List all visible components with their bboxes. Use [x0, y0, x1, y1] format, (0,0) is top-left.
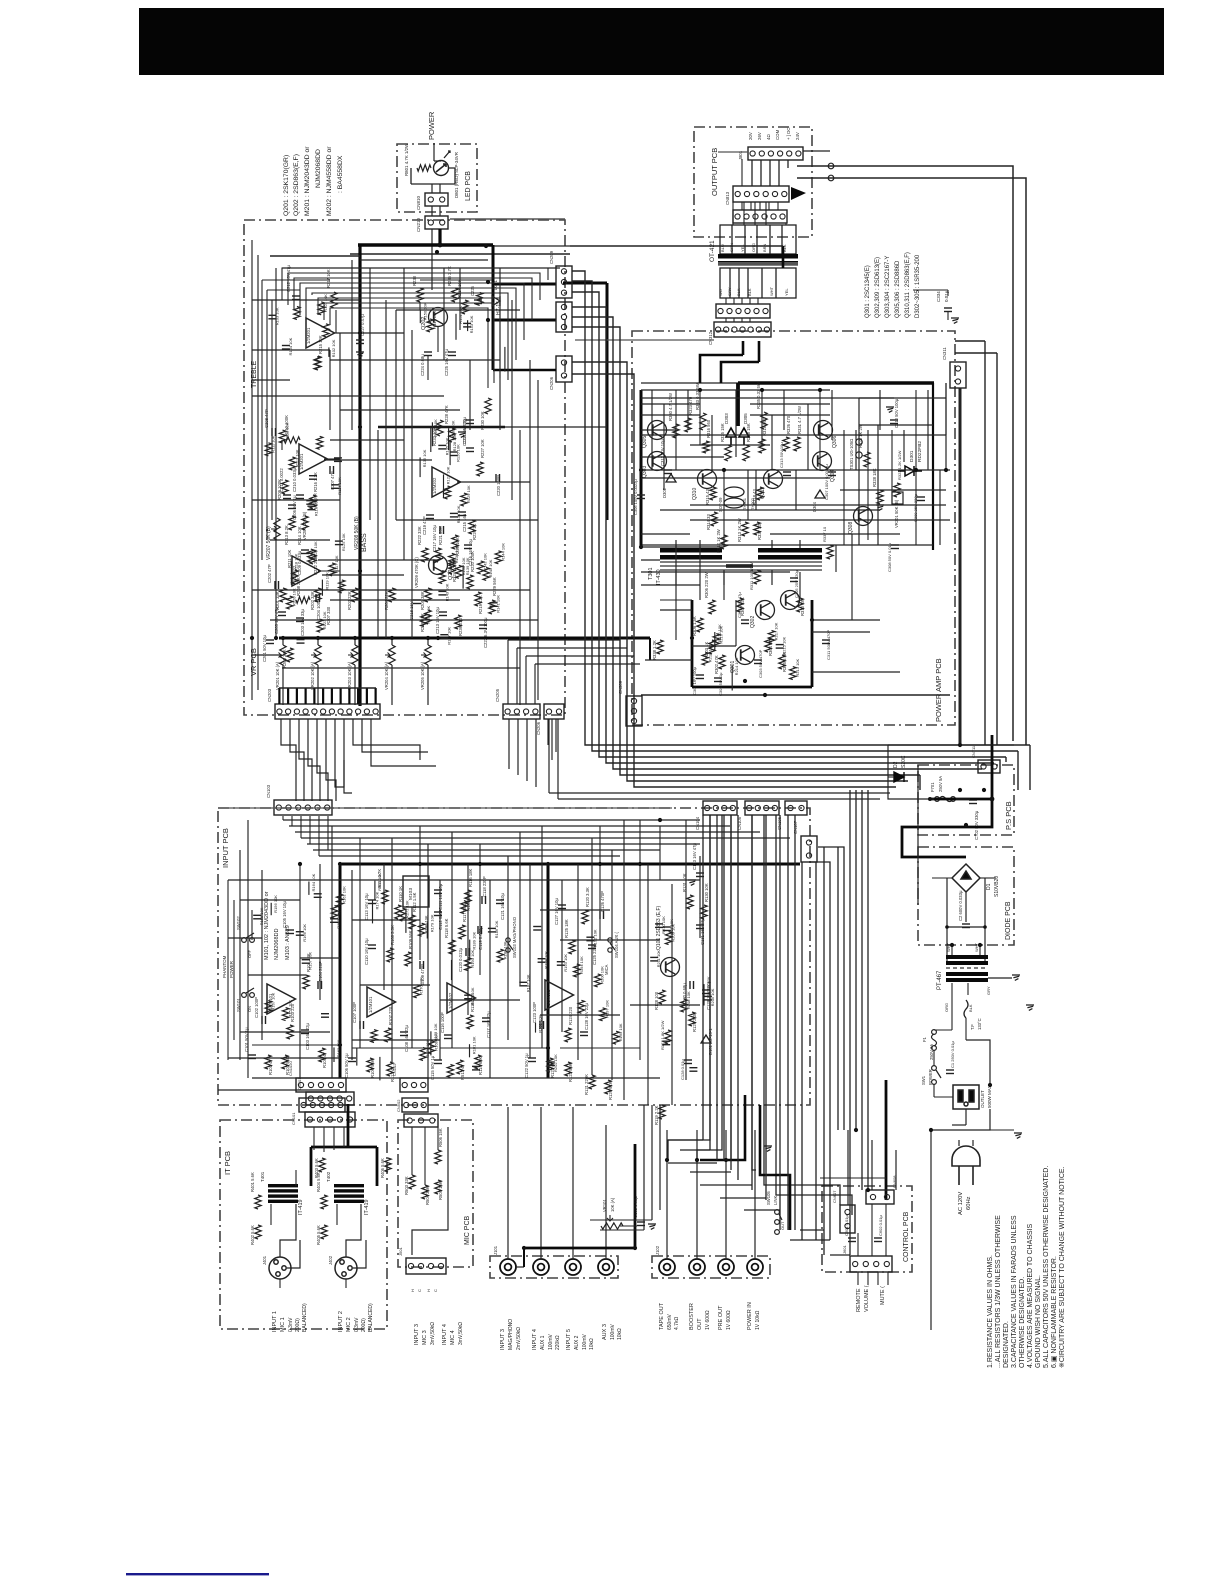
- svg-text:R202 33K: R202 33K: [310, 591, 315, 610]
- svg-text:C307 100V 0.0022μ: C307 100V 0.0022μ: [824, 464, 829, 500]
- svg-text:R315 43: R315 43: [705, 488, 710, 505]
- wire inmesh h9: [240, 1031, 330, 1033]
- svg-text:R156 10K: R156 10K: [273, 895, 278, 913]
- svg-text:1/2M201: 1/2M201: [306, 327, 311, 344]
- wire pamesh h0: [641, 397, 946, 399]
- mic v2: [424, 1127, 426, 1185]
- CONTROL PCB outline: [822, 1186, 912, 1272]
- transistor Q310: [698, 470, 717, 489]
- dp w1: [932, 877, 952, 879]
- svg-text:R135 10K: R135 10K: [444, 437, 449, 455]
- wire rbundle v9: [787, 815, 789, 1230]
- scatter resistor 116: [713, 634, 719, 647]
- svg-text:CN309: CN309: [618, 680, 623, 694]
- svg-text:C602 0.01μ: C602 0.01μ: [878, 1215, 883, 1236]
- svg-text:R325 15K: R325 15K: [720, 423, 725, 442]
- wire vrmesh v7: [377, 430, 379, 638]
- ps thick h: [930, 798, 992, 801]
- svg-text:BLK: BLK: [736, 288, 741, 296]
- svg-text:C217 16V 10μ: C217 16V 10μ: [432, 525, 437, 552]
- wire inmesh v0: [239, 850, 241, 1060]
- svg-text:5.ALL CAPACITORS 50V UNLESS OT: 5.ALL CAPACITORS 50V UNLESS OTHERWISE DE…: [1043, 1166, 1050, 1368]
- pa v1: [675, 390, 677, 470]
- scatter capacitor 58: [330, 919, 338, 923]
- VR205 wiper: [421, 653, 426, 658]
- svg-text:MAG/PHONO: MAG/PHONO: [508, 1319, 514, 1350]
- POWER AMP PCB outline: [632, 331, 955, 725]
- wirej3: [769, 160, 771, 186]
- junction 5: [436, 636, 440, 640]
- wire rbundle v1: [709, 815, 711, 1150]
- node VR205: [426, 636, 430, 640]
- svg-text:BLK: BLK: [747, 288, 752, 296]
- junction 24: [698, 388, 702, 392]
- svg-text:OUTLET: OUTLET: [980, 1090, 985, 1108]
- svg-text:GRY: GRY: [986, 986, 991, 995]
- svg-text:CN103: CN103: [266, 784, 271, 798]
- wire rbundle h7: [790, 1239, 830, 1241]
- scatter resistor 117: [768, 630, 774, 643]
- J101 jack 1: [500, 1259, 516, 1275]
- op-amp M202b: [432, 467, 461, 497]
- svg-text:T401: T401: [260, 1171, 265, 1182]
- svg-text:M201 : NJM2043DD or: M201 : NJM2043DD or: [304, 146, 311, 216]
- wire led top: [434, 160, 441, 162]
- thick h607 top: [563, 282, 607, 285]
- svg-text:VR207 50K (B): VR207 50K (B): [266, 526, 272, 560]
- connector CN607: [840, 1205, 855, 1233]
- svg-text:R125 18K: R125 18K: [564, 919, 569, 938]
- svg-text:R323 470: R323 470: [688, 396, 693, 415]
- svg-text:R129 2.3K: R129 2.3K: [692, 1012, 697, 1032]
- wire inmesh v17: [529, 864, 531, 1058]
- svg-text:250V 2A: 250V 2A: [929, 1044, 934, 1060]
- resistor R307: [737, 598, 743, 612]
- svg-text:R169 10K: R169 10K: [377, 873, 382, 891]
- svg-text:R200 10K: R200 10K: [600, 966, 605, 984]
- svg-text:VR PCB: VR PCB: [249, 648, 258, 676]
- connector J601: [850, 1256, 892, 1272]
- svg-text:C1 250V 0.01μ: C1 250V 0.01μ: [950, 1041, 955, 1068]
- wire vrmesh v17: [519, 430, 521, 705]
- rb v1: [668, 815, 710, 1160]
- resistor R112: [409, 915, 415, 929]
- wire inmesh h1: [240, 899, 300, 901]
- resistor R220: [467, 575, 473, 589]
- fuse F1: [932, 1030, 937, 1051]
- bus y799: [558, 798, 880, 800]
- wire cn210 thin: [431, 229, 433, 290]
- wire rbundle v13: [837, 847, 839, 1130]
- junction 8: [353, 636, 357, 640]
- svg-text:R104 10K: R104 10K: [288, 337, 293, 355]
- wire vrmesh v19: [537, 380, 539, 700]
- wire pamesh v18: [675, 545, 677, 640]
- j101 link1: [516, 1266, 524, 1268]
- capacitor C123: [540, 1021, 544, 1029]
- svg-text:R214 10K: R214 10K: [734, 657, 739, 675]
- svg-text:INPUT PCB: INPUT PCB: [221, 828, 230, 868]
- in band 4: [301, 837, 790, 839]
- capacitor C111: [434, 890, 442, 894]
- VR PCB outline: [244, 220, 565, 715]
- svg-text:C: C: [433, 1289, 438, 1292]
- bund right drop2: [1017, 751, 1019, 790]
- svg-text:R170 10K: R170 10K: [419, 977, 424, 995]
- resistor R101: [265, 1055, 271, 1069]
- wire inmesh v10: [411, 907, 413, 1048]
- bund right drop4: [919, 775, 921, 790]
- svg-text:C219 47P: C219 47P: [422, 516, 427, 535]
- svg-text:TS301 UG-105Ω: TS301 UG-105Ω: [849, 439, 854, 470]
- svg-text:R328 18K: R328 18K: [872, 468, 877, 487]
- svg-text:R192 10K: R192 10K: [592, 929, 597, 947]
- svg-text:R205 38K: R205 38K: [420, 591, 425, 610]
- wire b1 extra 0: [318, 298, 500, 378]
- svg-text:R161 10K: R161 10K: [342, 886, 347, 904]
- rb v10: [855, 790, 857, 1130]
- svg-text:GPOUND WISH NO SIGNAL.: GPOUND WISH NO SIGNAL.: [1035, 1275, 1042, 1368]
- node VR201: [281, 636, 285, 640]
- junction 35: [274, 636, 278, 640]
- capacitor C126: [600, 911, 604, 919]
- wire vrmesh v10: [403, 268, 405, 560]
- svg-text:VR204 10K (A): VR204 10K (A): [384, 661, 389, 690]
- ac w1: [933, 1050, 935, 1066]
- wire inmesh v15: [489, 880, 491, 1078]
- svg-text:220kΩ: 220kΩ: [555, 1335, 561, 1350]
- wire vrmesh h19: [252, 589, 530, 591]
- cn206h d1: [548, 719, 550, 793]
- MIC PCB outline: [398, 1120, 473, 1267]
- svg-text:BALANCED): BALANCED): [302, 1303, 308, 1332]
- dp v1: [965, 892, 967, 922]
- junction 3: [486, 280, 490, 284]
- wire vrmesh v6: [369, 268, 371, 520]
- svg-text:R801 4.7K 1/2W: R801 4.7K 1/2W: [404, 143, 409, 176]
- svg-text:200Ω): 200Ω): [295, 1318, 301, 1332]
- wire vrmesh h14: [252, 499, 340, 501]
- svg-text:AUX 1: AUX 1: [540, 1335, 546, 1350]
- VR204 wiper: [385, 653, 390, 658]
- junction 27: [690, 636, 694, 640]
- svg-text:Q305,306 : 2SD886D: Q305,306 : 2SD886D: [895, 260, 901, 318]
- phantom w4: [251, 910, 253, 940]
- svg-text:R165 10K: R165 10K: [337, 897, 342, 915]
- resistor R114: [475, 1055, 481, 1069]
- thick v607: [606, 283, 609, 520]
- w q202b: [419, 302, 421, 310]
- capacitor C226: [474, 300, 482, 304]
- capacitor C213: [439, 612, 447, 616]
- svg-text:20V: 20V: [748, 132, 753, 140]
- ps w1: [888, 776, 894, 778]
- node VR204: [390, 636, 394, 640]
- wire inmesh v1: [247, 820, 249, 1078]
- svg-text:SW105: SW105: [766, 1191, 771, 1205]
- svg-text:10K (A): 10K (A): [610, 1197, 615, 1212]
- pa thick drop d303: [736, 383, 740, 426]
- svg-text:3mV,50kΩ: 3mV,50kΩ: [430, 1322, 436, 1345]
- svg-text:C206 50V 1μ: C206 50V 1μ: [292, 495, 297, 520]
- wire inmesh v13: [451, 832, 453, 1048]
- svg-text:MIC 3: MIC 3: [422, 1330, 428, 1345]
- scatter resistor 59: [282, 1008, 288, 1021]
- svg-text:D1: D1: [986, 883, 992, 890]
- scatter capacitor 105: [704, 996, 712, 1000]
- svg-text:R159 10K: R159 10K: [288, 999, 293, 1017]
- svg-text:R406 5.6K: R406 5.6K: [380, 1158, 385, 1178]
- wire vrmesh v11: [411, 330, 413, 638]
- pa v3: [723, 470, 725, 547]
- svg-text:R227 10K: R227 10K: [480, 439, 485, 458]
- dash cn206 row: [575, 339, 714, 341]
- variable resistor VR203: [352, 645, 358, 665]
- scatter resistor 113: [790, 667, 796, 680]
- svg-text:R119 2.2K: R119 2.2K: [654, 1105, 659, 1125]
- scatter wire 51: [455, 314, 457, 340]
- junction 37: [435, 250, 439, 254]
- svg-text:R404 5.6K: R404 5.6K: [316, 1172, 321, 1192]
- connector CN205 side: [556, 302, 572, 332]
- svg-text:R111 10K: R111 10K: [270, 435, 275, 453]
- svg-text:OUTPUT PCB: OUTPUT PCB: [710, 148, 719, 196]
- connector CN209: [556, 266, 572, 298]
- ground c132: [648, 1224, 656, 1229]
- scatter capacitor 43: [438, 591, 446, 595]
- svg-text:TAPE OUT: TAPE OUT: [659, 1302, 665, 1330]
- capacitor C702: [969, 800, 977, 804]
- svg-text:4Ω: 4Ω: [766, 134, 771, 140]
- capacitor C216: [464, 545, 472, 549]
- svg-text:C201 50V 10μ: C201 50V 10μ: [262, 635, 267, 662]
- svg-text:R124 220: R124 220: [568, 1006, 573, 1025]
- scatter resistor 15: [317, 436, 323, 449]
- resistor R221: [435, 548, 441, 562]
- svg-text:R211 10K: R211 10K: [656, 950, 661, 968]
- cn203 stub 2: [296, 688, 298, 704]
- scatter wire 89: [469, 940, 471, 961]
- scatter wire 75: [405, 909, 407, 933]
- svg-text:C123 100P: C123 100P: [532, 1002, 537, 1023]
- wire VR201 up: [282, 638, 284, 645]
- wire pamesh v21: [799, 572, 801, 598]
- scatter resistor 83: [447, 1064, 453, 1077]
- rb v6: [776, 815, 852, 1215]
- j102 up1: [666, 1160, 668, 1259]
- wire inmesh h7: [440, 999, 520, 1001]
- mid stair 5: [317, 719, 328, 801]
- thermal fuse TF: [964, 1000, 968, 1018]
- wire cn205drop v1: [516, 648, 518, 704]
- svg-text:R136 10K: R136 10K: [422, 449, 427, 467]
- svg-text:R235 2.7K: R235 2.7K: [447, 266, 452, 286]
- junction 39: [546, 1046, 550, 1050]
- wire pamesh h6: [641, 477, 830, 479]
- wire pamesh h4: [690, 444, 770, 446]
- wire vrmesh h11: [330, 439, 404, 441]
- wire vrmesh v8: [385, 300, 387, 638]
- wire rbundle v6: [751, 815, 753, 1190]
- svg-text:D201: D201: [493, 279, 498, 290]
- bund b2 l4: [572, 307, 994, 763]
- wire vrmesh v18: [529, 360, 531, 640]
- resistor R405: [321, 1225, 327, 1239]
- wire pamesh v6: [771, 415, 773, 470]
- J102 jack group outline: [652, 1256, 770, 1278]
- j101 wire up2: [540, 1107, 542, 1259]
- svg-text:J101: J101: [493, 1245, 498, 1255]
- pa w8: [660, 599, 692, 601]
- switch SW105: [775, 1210, 782, 1235]
- svg-text:POWER: POWER: [427, 111, 436, 140]
- svg-text:SW104 AUX (: SW104 AUX (: [614, 932, 619, 958]
- VR202 wiper: [311, 653, 316, 658]
- scatter wire 69: [374, 881, 376, 900]
- svg-text:R130 10K: R130 10K: [456, 505, 461, 523]
- capacitor C204: [316, 594, 320, 602]
- svg-text:PHANTOM: PHANTOM: [222, 955, 227, 978]
- svg-text:C118 220P: C118 220P: [482, 876, 487, 897]
- resistor R201: [280, 588, 286, 602]
- wire rbundle h8: [800, 1229, 824, 1231]
- scatter wire 28: [449, 441, 451, 465]
- wire vrmesh h23: [282, 667, 520, 669]
- pa w5: [690, 519, 950, 521]
- scatter wire 74: [372, 900, 374, 924]
- vr left loop v2: [266, 290, 268, 540]
- XLR jack J402: [335, 1257, 357, 1279]
- dash stub vr: [450, 218, 565, 220]
- scatter capacitor 63: [321, 1014, 329, 1018]
- wt13: [733, 318, 735, 322]
- resistor R323a: [685, 418, 691, 432]
- bus right v1: [984, 341, 986, 745]
- svg-text:C107 100P: C107 100P: [352, 1002, 357, 1023]
- wire pamesh v11: [879, 390, 881, 430]
- svg-text:R123 56K: R123 56K: [568, 1063, 573, 1082]
- svg-text:C224 0.68μ: C224 0.68μ: [420, 354, 425, 376]
- wire inmesh v14: [467, 864, 469, 1015]
- scatter resistor 22: [308, 549, 314, 562]
- svg-text:R229 56K: R229 56K: [492, 577, 497, 596]
- junction 7: [316, 636, 320, 640]
- wire vrmesh v1: [257, 255, 259, 690]
- svg-text:C133 16V 47μ: C133 16V 47μ: [692, 843, 697, 870]
- rb v4: [752, 815, 756, 1170]
- wire pamesh v4: [735, 390, 737, 457]
- svg-text:INPUT 4: INPUT 4: [442, 1324, 448, 1345]
- pa w10: [641, 571, 790, 573]
- junction 34: [250, 636, 254, 640]
- scatter resistor 40: [421, 614, 427, 627]
- cn103 drop2: [291, 816, 293, 826]
- resistor R116: [465, 890, 471, 904]
- svg-text:C132 0.68μ: C132 0.68μ: [633, 1196, 638, 1218]
- in band 6: [313, 849, 660, 851]
- svg-text:OUT: OUT: [780, 1221, 785, 1230]
- wt9: [741, 298, 743, 304]
- dp v3: [984, 878, 986, 964]
- bundle b1 l3: [294, 278, 532, 320]
- cn205h d1: [508, 719, 510, 769]
- svg-text:500W MAX: 500W MAX: [987, 1085, 992, 1108]
- svg-text:R217 10K: R217 10K: [774, 622, 779, 640]
- resistor R113: [387, 1062, 393, 1076]
- wire pamesh h9: [641, 533, 690, 535]
- transformer PT-467 top: [946, 955, 988, 965]
- scatter wire 112: [714, 632, 716, 651]
- wire vrmesh h9: [340, 409, 460, 411]
- bus right v2: [996, 353, 998, 745]
- switch SW101: [242, 988, 255, 997]
- wire inmesh h5: [248, 974, 306, 976]
- connector OT low row1: [716, 304, 770, 318]
- svg-text:C116 100P: C116 100P: [440, 1012, 445, 1033]
- resistor R302: [719, 655, 725, 669]
- wire inmesh v7: [359, 985, 361, 1048]
- dp v2: [946, 878, 948, 964]
- resistor R513: [457, 1060, 463, 1074]
- wire vrmesh v2: [275, 268, 277, 640]
- svg-text:R402 5.6K: R402 5.6K: [250, 1225, 255, 1245]
- svg-text:R172 10K: R172 10K: [404, 900, 409, 918]
- wire rbundle v3: [723, 815, 725, 1160]
- resistor R107: [385, 1028, 391, 1042]
- svg-text:R208 10K: R208 10K: [686, 991, 691, 1009]
- bund b2 l3: [572, 292, 1006, 757]
- wire inmesh v4: [319, 864, 321, 1000]
- capacitor C602: [874, 1238, 882, 1242]
- DIODE PCB outline: [918, 847, 1014, 945]
- svg-text:R195 10K: R195 10K: [618, 1023, 623, 1041]
- wire rbundle h3: [690, 1171, 731, 1173]
- scatter capacitor 3: [268, 315, 276, 319]
- svg-text:LED PCB: LED PCB: [465, 171, 472, 201]
- scatter capacitor 66: [296, 932, 304, 936]
- wire pamesh v20: [735, 600, 737, 646]
- pt w up1: [951, 945, 953, 955]
- resistor R117: [459, 925, 465, 939]
- connector CN104: [703, 801, 737, 815]
- resistor R328: [743, 445, 749, 461]
- wire b1 extra 2: [330, 308, 488, 388]
- rb v2: [697, 815, 722, 1160]
- svg-text:R504 33K: R504 33K: [425, 1186, 430, 1205]
- scatter capacitor 4: [282, 346, 290, 350]
- capacitor C117: [482, 1018, 490, 1022]
- junction 18: [658, 818, 662, 822]
- svg-text:26V: 26V: [757, 132, 762, 140]
- bund b2 l1: [572, 271, 1030, 745]
- cn203 stub 8: [348, 688, 350, 704]
- scatter capacitor 87: [519, 982, 527, 986]
- svg-text:J102: J102: [655, 1245, 660, 1255]
- svg-text:R189 10K: R189 10K: [472, 931, 477, 949]
- thick bus top h: [358, 243, 493, 246]
- svg-text:D305: D305: [743, 413, 748, 424]
- it v1: [270, 1204, 272, 1225]
- wire pamesh v3: [711, 415, 713, 470]
- pa2 thick right: [811, 600, 814, 687]
- svg-text:CN711: CN711: [971, 745, 976, 758]
- resistor R311: [754, 570, 760, 584]
- pa v7: [867, 430, 869, 540]
- junction 6: [281, 636, 285, 640]
- capacitor C105: [286, 930, 294, 934]
- resistor R314: [711, 512, 717, 526]
- c334 lead2: [947, 290, 949, 296]
